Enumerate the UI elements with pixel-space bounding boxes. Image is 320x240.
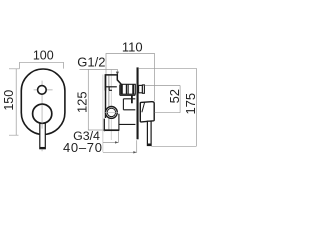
plate slab (side profile): [105, 74, 107, 118]
small circle crosshair: [34, 89, 53, 91]
wall reference extension line: [102, 75, 104, 153]
dim 40 line: [103, 131, 118, 142]
dim 70 arrow: [133, 151, 136, 153]
top body block: [105, 75, 121, 91]
svg-text:125: 125: [75, 91, 90, 113]
large knob circle: [33, 104, 52, 123]
svg-text:110: 110: [122, 40, 143, 55]
svg-text:150: 150: [2, 90, 16, 111]
dim 40 arrow: [115, 141, 118, 143]
fitting ring 3: [132, 84, 134, 94]
cylinder wall bar: [131, 95, 133, 103]
svg-text:40–70: 40–70: [63, 140, 103, 155]
dim 175 extension lines: [139, 68, 197, 146]
G3/4 leader: [103, 131, 105, 132]
dim 52 extension lines: [145, 86, 180, 113]
body hidden edge: [108, 76, 110, 130]
wedge seam: [142, 102, 145, 112]
dim 175 line: [195, 68, 197, 146]
G1/2 leader: [80, 69, 118, 73]
port circle inner: [107, 108, 115, 116]
fitting ring 1: [121, 84, 123, 94]
centerline inside large circle: [41, 105, 43, 124]
stub pipe end cap: [142, 85, 144, 93]
tall front bar: [137, 67, 139, 139]
fitting ring 2: [126, 84, 128, 94]
oval wall plate: [21, 69, 65, 134]
centerline vertical: [41, 81, 43, 152]
dim 52 line: [179, 86, 181, 113]
G1/2 leader arrow: [116, 72, 119, 76]
body bottom bar: [104, 129, 119, 131]
slab lower edge line: [103, 119, 105, 131]
lower body edge: [119, 114, 135, 130]
lever end cap: [40, 147, 46, 149]
handle rod (side): [147, 121, 151, 145]
svg-text:175: 175: [183, 93, 198, 115]
stub pipe: [139, 85, 143, 92]
block bottom edge: [106, 86, 117, 88]
dim 110 line: [106, 54, 155, 102]
svg-text:100: 100: [33, 48, 54, 62]
svg-text:G1/2: G1/2: [77, 55, 105, 70]
port centerline vertical: [110, 70, 112, 140]
body internal lines: [120, 85, 136, 96]
dim 70 line: [103, 140, 137, 152]
rod end cap: [147, 144, 151, 146]
lever handle (front): [40, 122, 46, 149]
dim 150 line: [9, 69, 19, 135]
small diverter circle: [38, 86, 47, 95]
dim 125 line: [88, 69, 104, 130]
dim 100 line: [20, 62, 64, 68]
svg-text:52: 52: [167, 89, 182, 103]
port circle outer: [106, 107, 118, 119]
G1/2 fitting cylinder: [121, 84, 136, 94]
port crosshair: [105, 111, 118, 113]
handle wedge (side): [140, 102, 154, 122]
block hook: [109, 87, 112, 91]
